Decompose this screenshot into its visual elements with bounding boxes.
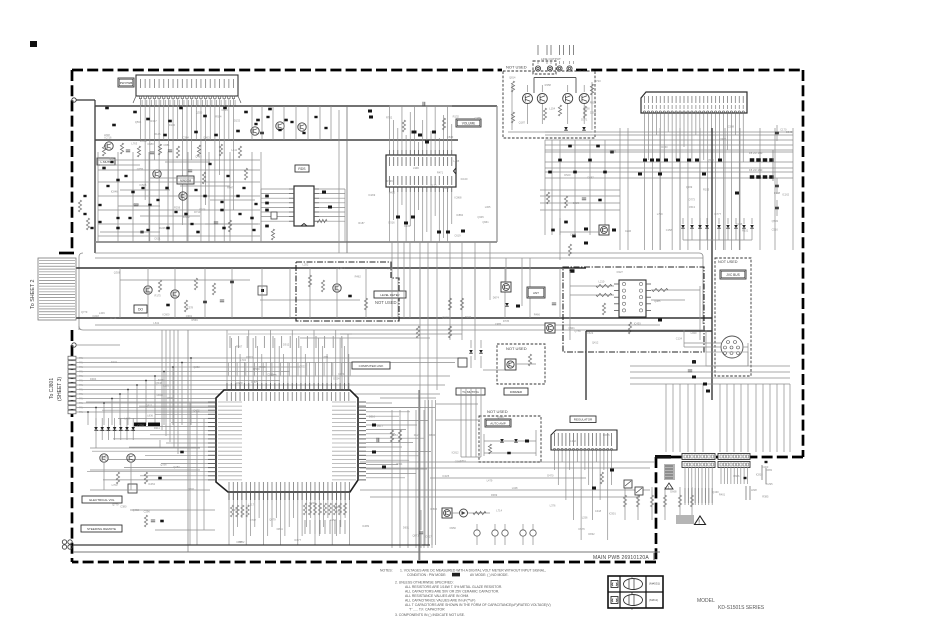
- wires right grid: [545, 131, 793, 133]
- transistor Q62 boxed: [545, 323, 555, 333]
- svg-text:STEERING REMOTE: STEERING REMOTE: [87, 527, 116, 531]
- svg-text:IC295: IC295: [766, 482, 773, 486]
- svg-text:IC508: IC508: [139, 183, 146, 187]
- label AUTO AMP: [485, 419, 511, 427]
- res row bottom right: [624, 487, 626, 520]
- wires to CN601: [684, 342, 721, 344]
- svg-text:L154: L154: [549, 107, 555, 111]
- svg-text:R471: R471: [437, 171, 444, 175]
- transistor Q95 boxed: [442, 508, 452, 518]
- svg-text:D845: D845: [786, 130, 793, 134]
- svg-text:L652: L652: [330, 518, 336, 522]
- line out jacks: [535, 66, 540, 71]
- svg-text:R256: R256: [174, 205, 181, 209]
- svg-text:L252: L252: [303, 262, 309, 266]
- svg-text:D950: D950: [450, 526, 457, 530]
- svg-text:DO: DO: [138, 307, 143, 311]
- svg-text:PIN: PIN: [79, 357, 83, 360]
- svg-text:L641: L641: [153, 321, 159, 325]
- diode D61: [505, 303, 509, 306]
- IC301 RDS decoder: [294, 186, 314, 226]
- resistor row top-left: [102, 145, 105, 156]
- jumper bar 1: [134, 423, 146, 427]
- svg-text:R830: R830: [429, 433, 436, 437]
- svg-text:LEVEL METER: LEVEL METER: [380, 293, 399, 297]
- wires center-bottom descend: [419, 242, 421, 560]
- svg-text:L305: L305: [485, 205, 491, 209]
- svg-text:ALL T CAPACITORS ARE SHOWN IN: ALL T CAPACITORS ARE SHOWN IN THE FORM O…: [405, 603, 551, 607]
- svg-text:C385: C385: [475, 116, 482, 120]
- capacitor right edge: [775, 207, 779, 210]
- wires left of IC701: [86, 401, 208, 403]
- svg-text:NOT USED: NOT USED: [506, 346, 527, 351]
- svg-text:MODEL: MODEL: [697, 598, 715, 604]
- component: [516, 305, 520, 308]
- svg-text:ELECTRICAL VOL: ELECTRICAL VOL: [89, 498, 115, 502]
- svg-text:C692: C692: [570, 233, 577, 237]
- svg-text:Q345: Q345: [477, 215, 484, 219]
- wires mid-left grid: [98, 159, 260, 161]
- transistor Q53: [333, 284, 341, 292]
- svg-text:IC588: IC588: [727, 124, 734, 128]
- svg-text:D552: D552: [300, 365, 307, 369]
- svg-text:IC953: IC953: [158, 378, 165, 382]
- dashed box NU2: [497, 344, 545, 384]
- capacitor right edge: [775, 132, 779, 135]
- svg-text:Q505: Q505: [707, 158, 714, 162]
- svg-text:R553: R553: [610, 149, 617, 153]
- svg-text:D238: D238: [310, 501, 317, 505]
- svg-text:Q202: Q202: [188, 487, 195, 491]
- svg-text:D327: D327: [617, 270, 624, 274]
- svg-text:C530: C530: [167, 396, 174, 400]
- svg-text:Q871: Q871: [412, 533, 419, 537]
- svg-text:D358: D358: [336, 510, 343, 514]
- label DO: [134, 305, 147, 313]
- svg-text:Q564: Q564: [135, 120, 142, 124]
- corridor vertical wires: [119, 268, 121, 318]
- svg-text:C158: C158: [666, 228, 673, 232]
- component box2: [458, 358, 467, 367]
- svg-text:Q814: Q814: [509, 75, 516, 79]
- svg-text:L769: L769: [657, 212, 663, 216]
- svg-text:L611: L611: [231, 148, 237, 152]
- corridor drop bundle: [161, 330, 163, 430]
- svg-text:D423: D423: [573, 201, 580, 205]
- svg-text:R103: R103: [465, 315, 472, 319]
- svg-text:IC596: IC596: [430, 507, 437, 511]
- svg-text:D773: D773: [689, 198, 696, 202]
- svg-text:PIN: PIN: [79, 398, 83, 401]
- svg-text:IC665: IC665: [442, 315, 449, 319]
- svg-text:C296: C296: [625, 229, 632, 233]
- svg-text:E: E: [631, 607, 633, 611]
- svg-text:PIN: PIN: [79, 393, 83, 396]
- svg-text:JVC BUS: JVC BUS: [726, 273, 739, 277]
- bus wire: [496, 106, 498, 242]
- svg-text:IC439: IC439: [634, 321, 641, 325]
- label RDS: [295, 165, 309, 172]
- svg-text:NOTES:: NOTES:: [380, 569, 393, 573]
- wire: [76, 99, 95, 101]
- board outline dashed right: [802, 70, 805, 457]
- svg-text:L376: L376: [550, 504, 556, 508]
- cap row bottom: [474, 530, 480, 536]
- svg-text:IC600: IC600: [162, 312, 169, 316]
- svg-text:R736: R736: [234, 508, 241, 512]
- svg-text:L996: L996: [413, 166, 419, 170]
- transistor Q51: [144, 286, 152, 294]
- svg-text:C737: C737: [250, 518, 257, 522]
- transistor Q81: [100, 454, 108, 462]
- svg-text:Q653: Q653: [391, 433, 398, 437]
- svg-text:R569: R569: [191, 318, 198, 322]
- IC701 right pins: [358, 401, 366, 403]
- svg-text:L407: L407: [125, 416, 131, 420]
- dashed box AUTO AMP: [479, 416, 541, 462]
- component: [735, 192, 739, 195]
- svg-text:C296: C296: [144, 509, 151, 513]
- IC401 pin wires: [644, 114, 646, 251]
- corridor components L: [158, 280, 161, 292]
- svg-text:PIN: PIN: [79, 407, 83, 410]
- svg-text:Q879: Q879: [269, 517, 276, 521]
- svg-text:L828: L828: [751, 488, 757, 492]
- svg-text:NOT USED: NOT USED: [718, 260, 738, 264]
- wires q95: [452, 512, 459, 514]
- svg-text:L858: L858: [133, 203, 139, 207]
- svg-text:C170: C170: [780, 127, 787, 131]
- svg-text:C463: C463: [762, 465, 769, 469]
- svg-text:D160: D160: [661, 145, 668, 149]
- svg-text:Q308: Q308: [114, 271, 121, 275]
- svg-text:IC982: IC982: [183, 215, 190, 219]
- svg-text:Q512: Q512: [146, 404, 153, 408]
- components under IC401: [643, 159, 647, 162]
- svg-text:D720: D720: [594, 79, 601, 83]
- svg-text:ALL CAPACITORS ARE 50V OR 25V: ALL CAPACITORS ARE 50V OR 25V CERAMIC CA…: [405, 590, 499, 594]
- svg-text:D520: D520: [564, 173, 571, 177]
- svg-text:L765: L765: [453, 159, 459, 163]
- svg-text:D727: D727: [425, 535, 432, 539]
- svg-text:Q755: Q755: [137, 167, 144, 171]
- svg-text:R132: R132: [453, 115, 460, 119]
- svg-text:R194: R194: [110, 316, 117, 320]
- svg-text:C482: C482: [443, 186, 450, 190]
- svg-text:ANT: ANT: [533, 291, 539, 295]
- svg-text:Q412: Q412: [592, 340, 599, 344]
- svg-text:COMPUTER LINK: COMPUTER LINK: [359, 364, 384, 368]
- components above connector: [703, 383, 707, 386]
- svg-text:B: B: [631, 591, 633, 595]
- capacitor right edge: [775, 185, 779, 188]
- svg-text:R175: R175: [155, 294, 162, 298]
- svg-text:D287: D287: [588, 175, 595, 179]
- svg-text:C680: C680: [147, 142, 154, 146]
- svg-text:L818: L818: [104, 133, 110, 137]
- svg-text:NOT USED: NOT USED: [375, 300, 397, 305]
- svg-text:R868: R868: [259, 365, 266, 369]
- board outline dashed left lower: [71, 330, 74, 562]
- label REGULATOR: [570, 416, 596, 423]
- terminal E2: [72, 343, 76, 347]
- wires below IC201: [389, 192, 391, 242]
- svg-text:IC812: IC812: [452, 450, 459, 454]
- svg-text:ALL RESISTANCE VALUES ARE IN O: ALL RESISTANCE VALUES ARE IN OHM.: [405, 594, 469, 598]
- svg-text:C522: C522: [587, 331, 594, 335]
- jumper bar 2: [148, 423, 160, 427]
- IC801 pin wires: [554, 451, 556, 470]
- svg-text:Q533: Q533: [772, 219, 779, 223]
- bus wire rail: [40, 267, 586, 269]
- svg-text:R467: R467: [150, 119, 157, 123]
- svg-text:D324: D324: [333, 376, 340, 380]
- board outline dashed top-left: [72, 69, 502, 72]
- svg-text:R796: R796: [386, 179, 393, 183]
- terminal E101: [72, 98, 76, 102]
- microcontroller IC701 body: [216, 390, 358, 492]
- wire: [94, 100, 96, 106]
- jack top labels: [537, 45, 539, 55]
- wires above bottom connector: [630, 365, 790, 367]
- board outline dashed bottom: [72, 561, 656, 564]
- svg-text:PIN: PIN: [79, 362, 83, 365]
- svg-text:IC901: IC901: [609, 512, 616, 516]
- svg-text:D129: D129: [414, 433, 421, 437]
- svg-text:IC269: IC269: [368, 193, 375, 197]
- wires steering2: [130, 509, 215, 511]
- connector CJ801: [68, 356, 76, 360]
- svg-text:R172: R172: [430, 183, 437, 187]
- svg-text:R385: R385: [762, 494, 769, 498]
- svg-text:Q322: Q322: [720, 137, 727, 141]
- svg-text:C840: C840: [447, 135, 454, 139]
- svg-text:PIN: PIN: [79, 384, 83, 387]
- svg-text:IC970: IC970: [236, 381, 243, 385]
- label DIMMER: [504, 388, 528, 395]
- svg-text:C814: C814: [221, 108, 228, 112]
- svg-text:R702: R702: [386, 115, 393, 119]
- svg-text:Q218: Q218: [92, 314, 99, 318]
- svg-text:C125: C125: [267, 372, 274, 376]
- svg-text:L217: L217: [248, 503, 254, 507]
- svg-text:Q473: Q473: [339, 266, 346, 270]
- svg-text:IC868: IC868: [455, 196, 462, 200]
- svg-text:To CJ801: To CJ801: [49, 378, 55, 399]
- label ELECTRICAL VOL: [82, 496, 122, 503]
- autoamp wires: [484, 440, 536, 442]
- svg-text:IC865: IC865: [603, 433, 610, 437]
- svg-text:L348: L348: [512, 486, 518, 490]
- svg-text:NOT USED: NOT USED: [506, 65, 527, 70]
- component box: [128, 484, 137, 493]
- svg-text:To SHEET 2: To SHEET 2: [30, 279, 36, 309]
- svg-text:R462: R462: [355, 274, 362, 278]
- components right of IC701: [372, 424, 376, 427]
- svg-text:C196: C196: [736, 222, 743, 226]
- LED D95: [460, 509, 468, 517]
- dashed box NOT USED lineout: [503, 71, 595, 138]
- module wires: [570, 285, 614, 287]
- transistor Q52: [171, 290, 179, 298]
- lineamp wires: [534, 77, 576, 79]
- svg-text:D668: D668: [670, 489, 677, 493]
- svg-text:R358: R358: [545, 83, 552, 87]
- svg-text:Q738: Q738: [137, 423, 144, 427]
- labels above IC701: [229, 336, 231, 348]
- connector CN901b: [682, 462, 715, 468]
- svg-text:C472: C472: [193, 409, 200, 413]
- transistor Q14: [276, 122, 284, 130]
- svg-text:3. COMPONENTS IN ( ) INDICATE: 3. COMPONENTS IN ( ) INDICATE NOT USE.: [395, 613, 465, 617]
- svg-text:R872: R872: [238, 540, 245, 544]
- wires into autoamp: [460, 388, 462, 457]
- wire: [76, 344, 120, 346]
- dark segment: [655, 455, 671, 459]
- svg-text:IC884: IC884: [456, 213, 463, 217]
- transistor Q10: [105, 142, 113, 150]
- connector to sheet 2 (hatch): [38, 258, 76, 320]
- svg-text:IC777: IC777: [714, 212, 721, 216]
- bus wire bottom: [73, 544, 430, 546]
- vertical wires right of IC701: [391, 410, 393, 548]
- terminals bottom-left: [62, 540, 66, 544]
- corridor rail3: [95, 257, 703, 259]
- transistor Q12: [179, 192, 187, 200]
- svg-text:IC651: IC651: [140, 139, 147, 143]
- svg-text:KD-S1501S SERIES: KD-S1501S SERIES: [718, 605, 765, 611]
- svg-text:D651: D651: [403, 526, 410, 530]
- svg-text:L479: L479: [487, 479, 493, 483]
- svg-text:C516: C516: [772, 227, 779, 231]
- svg-text:Q391: Q391: [186, 314, 193, 318]
- svg-text:Q187: Q187: [519, 121, 526, 125]
- svg-text:IC818: IC818: [756, 472, 763, 476]
- bus wire: [95, 139, 458, 141]
- revision mark: [30, 41, 37, 47]
- cd-changer module outline: [563, 267, 704, 352]
- levelmeter outline: [296, 262, 399, 321]
- IC401 tuner: [641, 92, 747, 113]
- IC601 bus driver: [619, 280, 646, 317]
- svg-text:Q350: Q350: [196, 110, 203, 114]
- connector CN902a: [718, 454, 750, 460]
- svg-text:L714: L714: [496, 509, 502, 513]
- svg-text:MAIN PWB 26910120A: MAIN PWB 26910120A: [593, 555, 649, 561]
- svg-text:D912: D912: [283, 343, 290, 347]
- wires right of IC701: [366, 402, 392, 404]
- svg-text:IC489: IC489: [362, 524, 369, 528]
- svg-text:REGULATOR: REGULATOR: [574, 418, 593, 422]
- label COMPUTER LINK: [352, 362, 390, 369]
- capacitor C201: [422, 102, 424, 106]
- svg-text:Q283: Q283: [173, 465, 180, 469]
- svg-text:D590: D590: [584, 106, 591, 110]
- comps above module: [564, 221, 568, 224]
- svg-text:D470: D470: [547, 473, 554, 477]
- label L MUTE: [97, 158, 115, 165]
- caution gray box: [676, 515, 694, 524]
- transistor Q13: [251, 127, 259, 135]
- svg-text:LINE OUTPUT: LINE OUTPUT: [541, 57, 561, 61]
- components mid-right band: [558, 159, 562, 162]
- svg-text:PW PWB: PW PWB: [120, 81, 133, 85]
- svg-text:R924: R924: [215, 114, 222, 118]
- bus wire: [585, 331, 587, 400]
- svg-text:Q488: Q488: [334, 505, 341, 509]
- transistor Q61 boxed: [501, 282, 511, 292]
- svg-text:R151: R151: [742, 228, 749, 232]
- svg-text:R606: R606: [733, 474, 740, 478]
- components below IC201: [396, 216, 400, 219]
- svg-text:D371: D371: [581, 117, 588, 121]
- svg-text:Q460: Q460: [133, 508, 140, 512]
- bus wire rail2: [40, 317, 712, 319]
- svg-text:Q336: Q336: [160, 463, 167, 467]
- svg-text:L930: L930: [691, 331, 697, 335]
- bus wire: [95, 241, 497, 243]
- transistor Q91 boxed: [505, 359, 516, 370]
- svg-text:L409: L409: [99, 311, 105, 315]
- components left column: [83, 195, 86, 197]
- board outline dashed left upper: [71, 70, 74, 250]
- svg-text:IC325: IC325: [442, 474, 449, 478]
- svg-text:Q779: Q779: [81, 310, 88, 314]
- svg-text:NOT USED: NOT USED: [487, 409, 508, 414]
- shaded lead area: [664, 464, 675, 480]
- board outline stub at connector: [59, 252, 74, 255]
- svg-text:R860: R860: [102, 455, 109, 459]
- svg-text:Q756: Q756: [574, 329, 581, 333]
- svg-text:Q265: Q265: [387, 266, 394, 270]
- svg-text:2. UNLESS OTHERWISE SPECIFIED:: 2. UNLESS OTHERWISE SPECIFIED:: [395, 581, 454, 585]
- dashed box terminals: [533, 61, 556, 74]
- corridor rail4: [95, 324, 660, 326]
- svg-text:L763: L763: [131, 142, 137, 146]
- svg-text:!: !: [668, 484, 669, 489]
- svg-text:Q282: Q282: [193, 365, 200, 369]
- svg-text:RDS: RDS: [298, 167, 306, 171]
- svg-text:R400: R400: [389, 190, 396, 194]
- svg-text:15 23 190: 15 23 190: [749, 168, 763, 172]
- diode row steering: [95, 418, 97, 440]
- wires below IC701: [228, 500, 230, 545]
- svg-text:DIMMER: DIMMER: [510, 390, 523, 394]
- svg-text:IC672: IC672: [246, 355, 253, 359]
- label JVC BUS: [720, 270, 746, 279]
- svg-text:D674: D674: [493, 296, 500, 300]
- lineamp transistors: [523, 94, 533, 104]
- components above IC201: [368, 110, 372, 113]
- wires NU2: [483, 369, 505, 371]
- svg-text:R195: R195: [703, 187, 710, 191]
- svg-text:PIN: PIN: [79, 375, 83, 378]
- components mid-left: [102, 167, 105, 170]
- svg-text:CONDITION : PW MODE:: CONDITION : PW MODE:: [407, 573, 446, 577]
- svg-text:Q689: Q689: [497, 415, 504, 419]
- wires IC301 left: [261, 188, 289, 190]
- svg-text:C380: C380: [120, 504, 127, 508]
- svg-text:Q463: Q463: [195, 154, 202, 158]
- svg-text:PIN: PIN: [79, 371, 83, 374]
- svg-text:L362: L362: [570, 439, 576, 443]
- bus wire: [95, 105, 497, 107]
- svg-text:IC575: IC575: [251, 380, 258, 384]
- svg-text:AV MODE: ( ) NO MODE.: AV MODE: ( ) NO MODE.: [470, 573, 509, 577]
- svg-text:R311: R311: [396, 462, 403, 466]
- bus wire: [586, 330, 712, 332]
- svg-text:R187: R187: [358, 221, 365, 225]
